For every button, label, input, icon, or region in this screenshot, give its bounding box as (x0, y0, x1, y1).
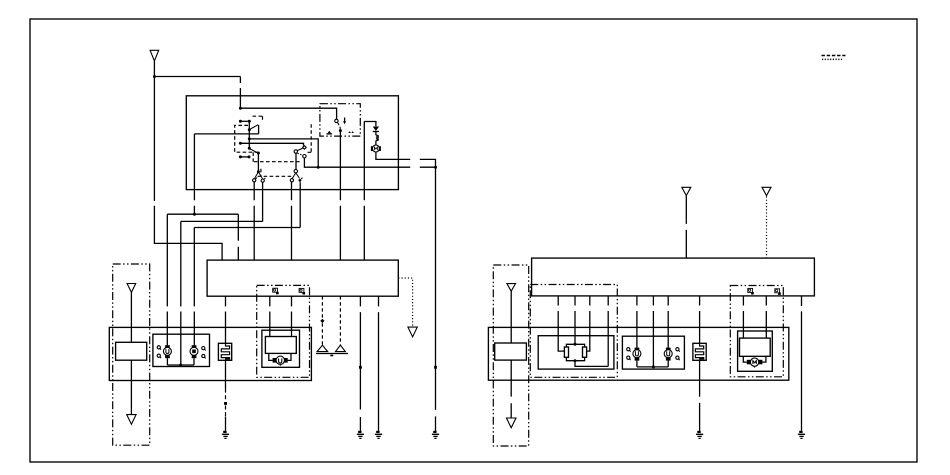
coil L1 (376, 135, 378, 140)
switch S1 pivot rail (248, 121, 251, 150)
lamp L4 contact marks (676, 348, 680, 361)
wire C2 to lamp L3 with break (636, 296, 638, 348)
wiper motor gear rect (265, 337, 296, 354)
dashed link S1-S2 lower (258, 169, 293, 177)
wiper/washer control unit box (186, 96, 398, 190)
switch S2 contact circle C (303, 155, 306, 158)
wire C1 to wiper motor pin 2 with break (291, 296, 293, 336)
node junction J2 (239, 107, 242, 110)
wire C1 to ground G2 with splice (359, 296, 362, 431)
wire C2 to lamp bus with break (652, 296, 654, 367)
fuse holder dash-dot enclosure left (113, 264, 150, 445)
indicator lamp box left (153, 334, 210, 366)
switch S1 output line 1 (249, 139, 319, 169)
dashed link S1-S2 upper (253, 152, 300, 161)
sensor unit box (538, 336, 614, 369)
dashed enclosure switch S2 (306, 124, 311, 152)
relay moving arm (337, 122, 340, 129)
indicator lamp box right (622, 336, 684, 369)
off-page triangle E (762, 187, 771, 195)
rear motor M3 (743, 356, 766, 367)
wire C2 to sensor left with break (558, 296, 564, 351)
heater resistor R2 (693, 343, 706, 360)
relay fixed contact right (348, 131, 354, 133)
connector C1 junction box (207, 260, 398, 296)
right component strip box (488, 327, 788, 380)
off-page triangle D (682, 187, 691, 195)
wire line B down to lamp bus with break (180, 221, 182, 365)
wire triangle F to fuse F2 (510, 291, 512, 343)
wire switch contact down to line C (299, 182, 301, 227)
wire branch to connector pin with break (237, 214, 239, 260)
wire switch contact down to line B (262, 182, 264, 221)
lamp L3 (633, 348, 641, 361)
relay K1 dash-dot enclosure (320, 104, 360, 136)
lamp L3 contact marks (627, 348, 631, 361)
off-page triangle dotted branch (408, 327, 417, 337)
wire C2 to lamp L4 with break (667, 296, 669, 348)
wire jog line B (181, 220, 263, 222)
right lamp bus wire (637, 361, 668, 369)
wire C1 to washer heater with breaks (225, 296, 227, 388)
lamp L1 (163, 345, 171, 358)
wire C2 to sensor return with break (607, 296, 609, 367)
wire C1 to ground G3 with break (378, 296, 380, 431)
wire C2 to sensor center with break (574, 296, 576, 344)
wire diode-chain branch down with break (363, 122, 365, 261)
relay pole node (339, 129, 342, 132)
ground G3 (375, 432, 382, 439)
wire from triangle A down (153, 61, 155, 77)
wire fuse to off-page triangle C (130, 360, 132, 414)
terminal pin 2 (299, 288, 305, 294)
wire contact to left side (194, 133, 258, 135)
wire relay pole down to connector C1 (339, 131, 341, 261)
wire C2 to rear motor pin 1 with break (742, 296, 744, 338)
ground G4 (432, 432, 439, 439)
wire down left with connector break (193, 134, 195, 214)
wire feed down into control unit (239, 77, 241, 109)
wire down to ground with splice (435, 167, 437, 431)
legend line styles (822, 56, 846, 60)
wire C2 to sensor right with break (587, 296, 590, 351)
rear motor assembly dash-dot enclosure (730, 286, 783, 377)
relay fixed contact left (327, 131, 333, 134)
lamp bus wire (167, 358, 194, 366)
switch S1 lower pole left (257, 153, 260, 173)
switch S2 lower fork (290, 173, 302, 182)
relay actuation arrow (343, 118, 346, 125)
switch S1 pole stub 3 (239, 155, 251, 158)
wire triangle D to connector C2 with break (685, 196, 687, 259)
wire C2 to ground G6 with break (801, 296, 803, 431)
off-page triangle C (127, 415, 136, 425)
motor M1 (pump in unit) (371, 145, 381, 152)
switch S1 arm 1 (250, 125, 258, 130)
wire J2 to relay contact (240, 108, 336, 119)
switch S2 arm (297, 148, 302, 150)
wire to lamp L1 with connector break (166, 214, 168, 345)
wiper motor assembly dash-dot enclosure (257, 285, 310, 377)
lamp L2 contact marks (202, 347, 206, 359)
rear motor gear rect (740, 338, 771, 356)
off-page triangle F (507, 284, 516, 292)
switch S1 output line 2 (239, 142, 304, 146)
wire coil to motor (375, 141, 377, 146)
wire J1 to right (154, 76, 240, 78)
switch S2 upper contact circle (294, 150, 297, 153)
terminal pin 1 (273, 288, 279, 294)
lamp L2 (190, 345, 198, 358)
wiper motor M2 (269, 353, 291, 365)
off-page triangle G (506, 418, 516, 428)
switch S1 contact drop (258, 125, 260, 134)
splice square S1 (434, 366, 437, 369)
connector C2 junction box (532, 258, 815, 296)
fuse holder dash-dot enclosure right (493, 265, 528, 446)
wire switch contact straight down with break (253, 182, 255, 260)
terminal pin 4 (775, 289, 781, 295)
lamp L4 (664, 348, 672, 361)
sensor bridge element (564, 343, 608, 367)
fuse F2 rectangle (495, 343, 527, 360)
node junction J3 (193, 213, 196, 216)
switch S1 feed stub (239, 120, 251, 123)
wire jog line C (194, 227, 300, 229)
wire C1 to wiper motor pin 1 with break (269, 296, 271, 336)
dashed enclosure switch S1 (235, 125, 258, 152)
ground G6 (798, 432, 805, 439)
wire line C down to lamp L2 with break (193, 228, 195, 346)
wire left branch down with connector break (154, 77, 222, 261)
dotted wire exit right to off-page (398, 278, 412, 326)
wire diode to coil (375, 132, 377, 136)
dashed wire to chassis delta 1 with splice diamond (320, 296, 324, 345)
wire switch contact straight down 2 with break (291, 182, 293, 260)
ground G2 (357, 432, 364, 439)
washer heater resistor R1 (218, 343, 231, 360)
wire C2 to rear motor pin 2 with break (765, 296, 767, 338)
wire switch S2 output to right (line2) (304, 158, 437, 169)
switch S2 arm dashes (298, 153, 303, 155)
wire motor down and right with break (376, 152, 436, 167)
switch S1 lower fork left (253, 172, 266, 182)
ground G1 (222, 432, 229, 439)
relay contact circle (335, 119, 338, 122)
wiper motor unit box (262, 330, 300, 367)
dashed wire to chassis delta 2 (339, 296, 341, 345)
diode D1 (373, 127, 379, 132)
switch S2 pole drop (294, 153, 297, 173)
dashed box fragment top (253, 116, 264, 122)
ground G5 (696, 432, 703, 439)
chassis delta pair symbol (316, 345, 348, 355)
dotted wire triangle E to connector C2 (766, 197, 768, 259)
node junction J1 (153, 75, 156, 78)
wire fuse F2 down with break (510, 360, 512, 418)
switch S1 arm 2 (250, 149, 260, 155)
fuse F1 rectangle (116, 342, 147, 360)
wire jog line A (167, 213, 238, 215)
lamp L1 contact marks (157, 346, 161, 358)
wire to diode chain (364, 122, 376, 127)
rear motor unit box (738, 331, 773, 371)
wire triangle B to fuse (130, 292, 132, 342)
left component strip box (109, 327, 311, 380)
washer switch assembly dash-dot enclosure (530, 285, 617, 378)
switch S2 fixed contact diamond (303, 146, 307, 150)
off-page connector triangle A (power feed) (150, 50, 159, 61)
off-page triangle B (127, 284, 136, 293)
dashed wire to ground with splice (224, 389, 227, 431)
wire C2 through heater to ground G5 (699, 296, 701, 431)
terminal pin 3 (748, 288, 754, 294)
